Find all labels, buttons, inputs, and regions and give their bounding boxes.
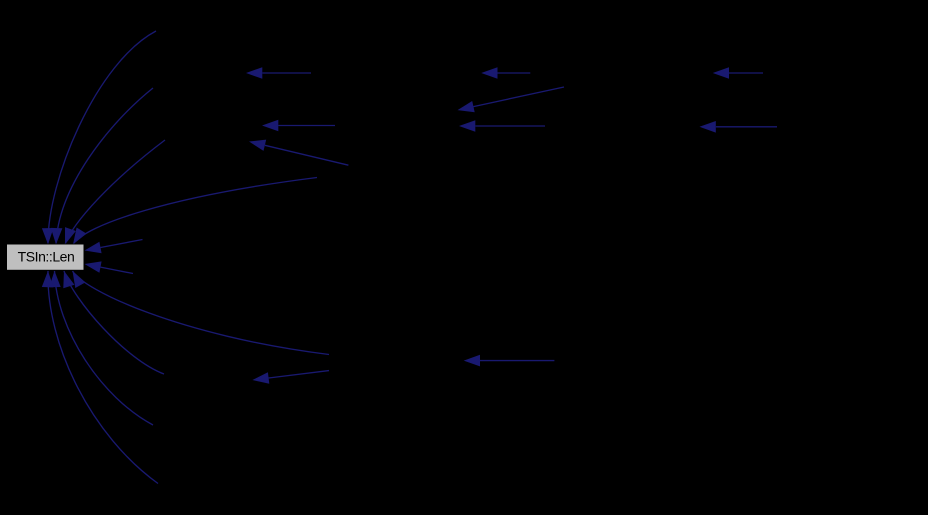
svg-text:TSIn::Len: TSIn::Len xyxy=(18,249,75,265)
